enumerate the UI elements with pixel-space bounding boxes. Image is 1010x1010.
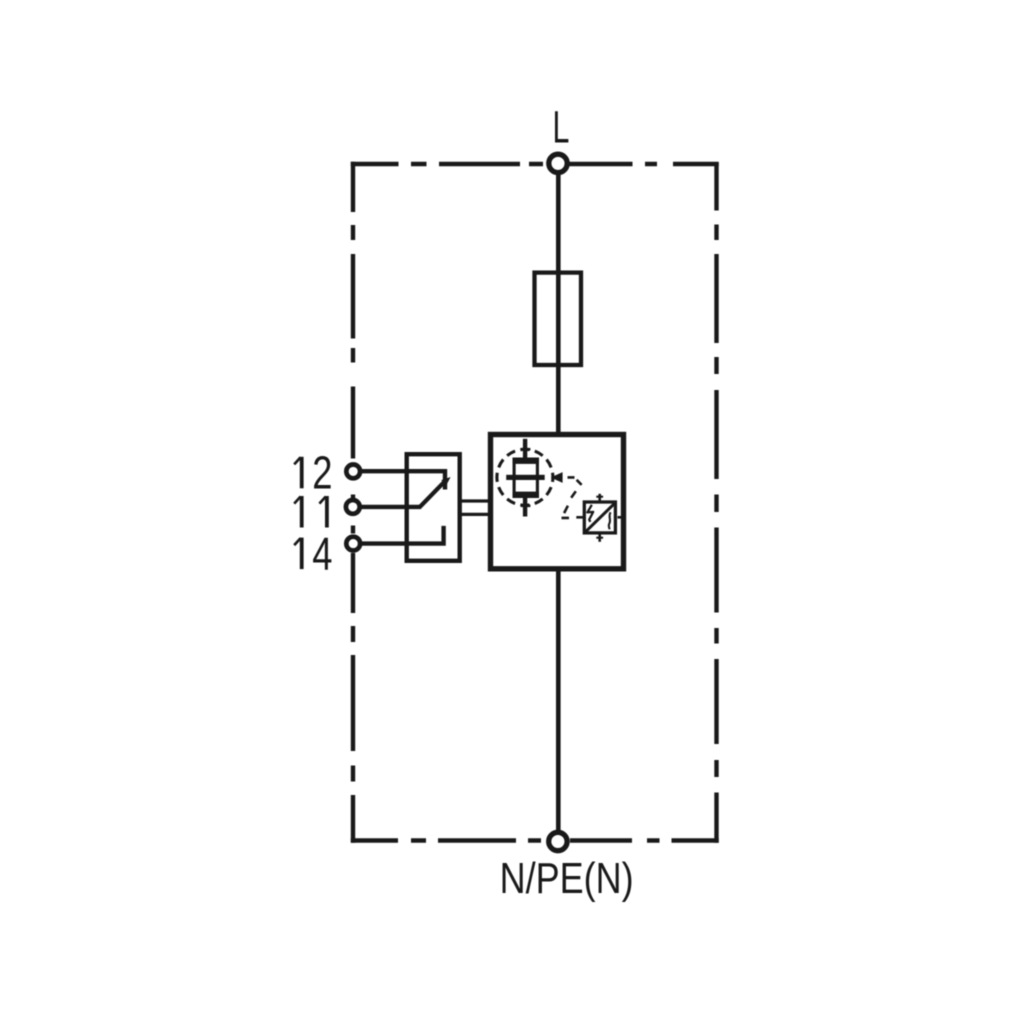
- wire L terminal to SPD box (through fuse): [556, 175, 561, 436]
- enclosure border (left side): [351, 162, 355, 843]
- remote contact box: [407, 454, 460, 561]
- tick top of circle: [521, 448, 531, 451]
- indicator arrow (filled, pointing left at circle): [551, 472, 563, 483]
- varistor top lead: [523, 439, 527, 459]
- fuse F1: [535, 273, 582, 365]
- spark gap box right lead: [618, 516, 625, 519]
- varistor bottom lead: [523, 497, 527, 517]
- lightning bolt glyph: [587, 505, 593, 522]
- spark gap diagonal: [585, 503, 616, 533]
- contact 12 wire with stub: [358, 471, 445, 489]
- enclosure border (right side): [714, 162, 718, 842]
- label 12: [294, 447, 332, 499]
- varistor monitoring circle (dashed): [497, 449, 553, 505]
- spark gap box: [584, 502, 615, 533]
- varistor body (fuse-style rectangle): [514, 459, 537, 496]
- SPD module box U1: [491, 435, 624, 569]
- switch blade diagonal: [419, 482, 444, 508]
- spark gap box top lead: [598, 494, 601, 502]
- spark gap box bottom lead: [598, 535, 601, 542]
- wire SPD box to N/PE terminal: [556, 571, 561, 830]
- terminal 14 circle: [346, 537, 360, 551]
- varistor top end fill: [513, 458, 540, 464]
- tick on top lead: [596, 496, 603, 498]
- svg-text:L: L: [553, 102, 570, 153]
- spark gap box left lead: [576, 516, 584, 519]
- varistor bottom end fill: [513, 492, 540, 498]
- enclosure border (dash-dot outline, top side): [351, 162, 719, 166]
- svg-text:N/PE(N): N/PE(N): [500, 854, 634, 903]
- terminal L circle: [549, 154, 567, 172]
- dashed link curve arrow to spark gap: [562, 477, 582, 518]
- contact 14 wire with stub: [358, 526, 444, 544]
- contact 11 wire (common): [358, 505, 421, 509]
- svg-text:2: 2: [312, 447, 332, 499]
- enclosure border (bottom side): [351, 838, 719, 842]
- small squiggle mark: [609, 512, 611, 529]
- svg-text:4: 4: [312, 527, 332, 579]
- label 11: [294, 496, 327, 528]
- switch blade arrowhead: [441, 477, 450, 485]
- label 14: [294, 527, 332, 579]
- tick bottom of circle: [521, 504, 531, 507]
- terminal 12 circle: [346, 465, 360, 479]
- terminal N/PE circle: [549, 832, 567, 850]
- tick on bottom lead: [596, 537, 603, 539]
- mechanical linkage (double line): [459, 501, 491, 514]
- varistor middle bar: [506, 475, 545, 480]
- terminal 11 circle: [346, 500, 360, 514]
